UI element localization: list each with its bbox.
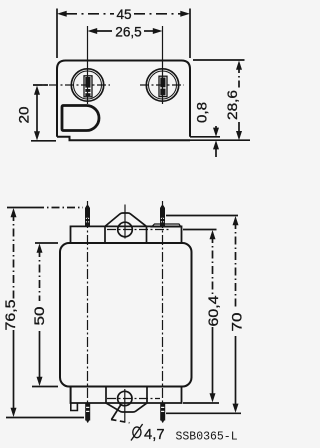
svg-text:70: 70 — [230, 312, 245, 332]
dimension 70 — [166, 216, 241, 414]
bottom flange — [71, 387, 182, 404]
svg-text:0,8: 0,8 — [195, 102, 210, 123]
centerline vertical left terminal — [87, 26, 89, 104]
centerline horizontal right circle — [140, 84, 184, 86]
dimension 20 — [31, 85, 56, 141]
ground lug D-shape — [62, 106, 99, 131]
top pin left — [85, 206, 90, 227]
blade terminal left — [84, 76, 92, 97]
top tab hole — [118, 222, 133, 237]
leader for hole diameter — [111, 405, 130, 423]
top mounting tab — [105, 213, 147, 243]
filter body (front view outline) — [60, 243, 192, 387]
hole diameter label — [131, 424, 143, 441]
dimension 28,6 — [193, 60, 245, 140]
bottom tab hole crosshair — [124, 389, 126, 423]
svg-text:45: 45 — [116, 7, 131, 22]
bottom pin left — [85, 403, 90, 423]
pin centerline right — [162, 201, 164, 421]
svg-text:4,7: 4,7 — [144, 427, 165, 443]
centerline vertical right terminal — [162, 26, 164, 104]
dimension 45 — [57, 9, 190, 59]
dimension 76,5 — [6, 208, 84, 418]
svg-text:SSB0365-L: SSB0365-L — [176, 431, 238, 444]
dimension 0,8 — [213, 126, 219, 157]
base plate bottom line extension right — [190, 139, 250, 141]
top flange — [71, 226, 182, 243]
dimension 50 — [32, 243, 58, 387]
svg-text:76,5: 76,5 — [3, 300, 18, 331]
body bottom edge with step — [57, 137, 190, 140]
blade terminal right — [159, 76, 167, 96]
terminal circle right inner — [149, 71, 177, 99]
bottom mounting tab — [106, 387, 147, 412]
bottom tab hole — [118, 391, 132, 405]
dimension 60,4 — [183, 230, 219, 404]
top tab hole crosshair — [124, 205, 126, 239]
svg-text:20: 20 — [17, 106, 32, 123]
terminal circle left outer — [71, 69, 103, 101]
centerline horizontal left circle — [33, 84, 110, 86]
svg-text:26,5: 26,5 — [115, 25, 141, 40]
filter body (top view outline) — [57, 61, 190, 137]
top thin strip — [152, 224, 182, 227]
terminal circle right outer — [146, 69, 178, 101]
bottom pin right — [160, 403, 165, 423]
svg-text:60,4: 60,4 — [206, 295, 221, 327]
svg-text:50: 50 — [32, 306, 47, 326]
terminal circle left inner — [74, 71, 102, 99]
top pin right — [160, 206, 165, 227]
svg-text:28,6: 28,6 — [225, 90, 240, 120]
pin centerline left — [87, 201, 89, 421]
bottom left foot — [71, 387, 78, 411]
dimension 26,5 — [88, 28, 163, 34]
